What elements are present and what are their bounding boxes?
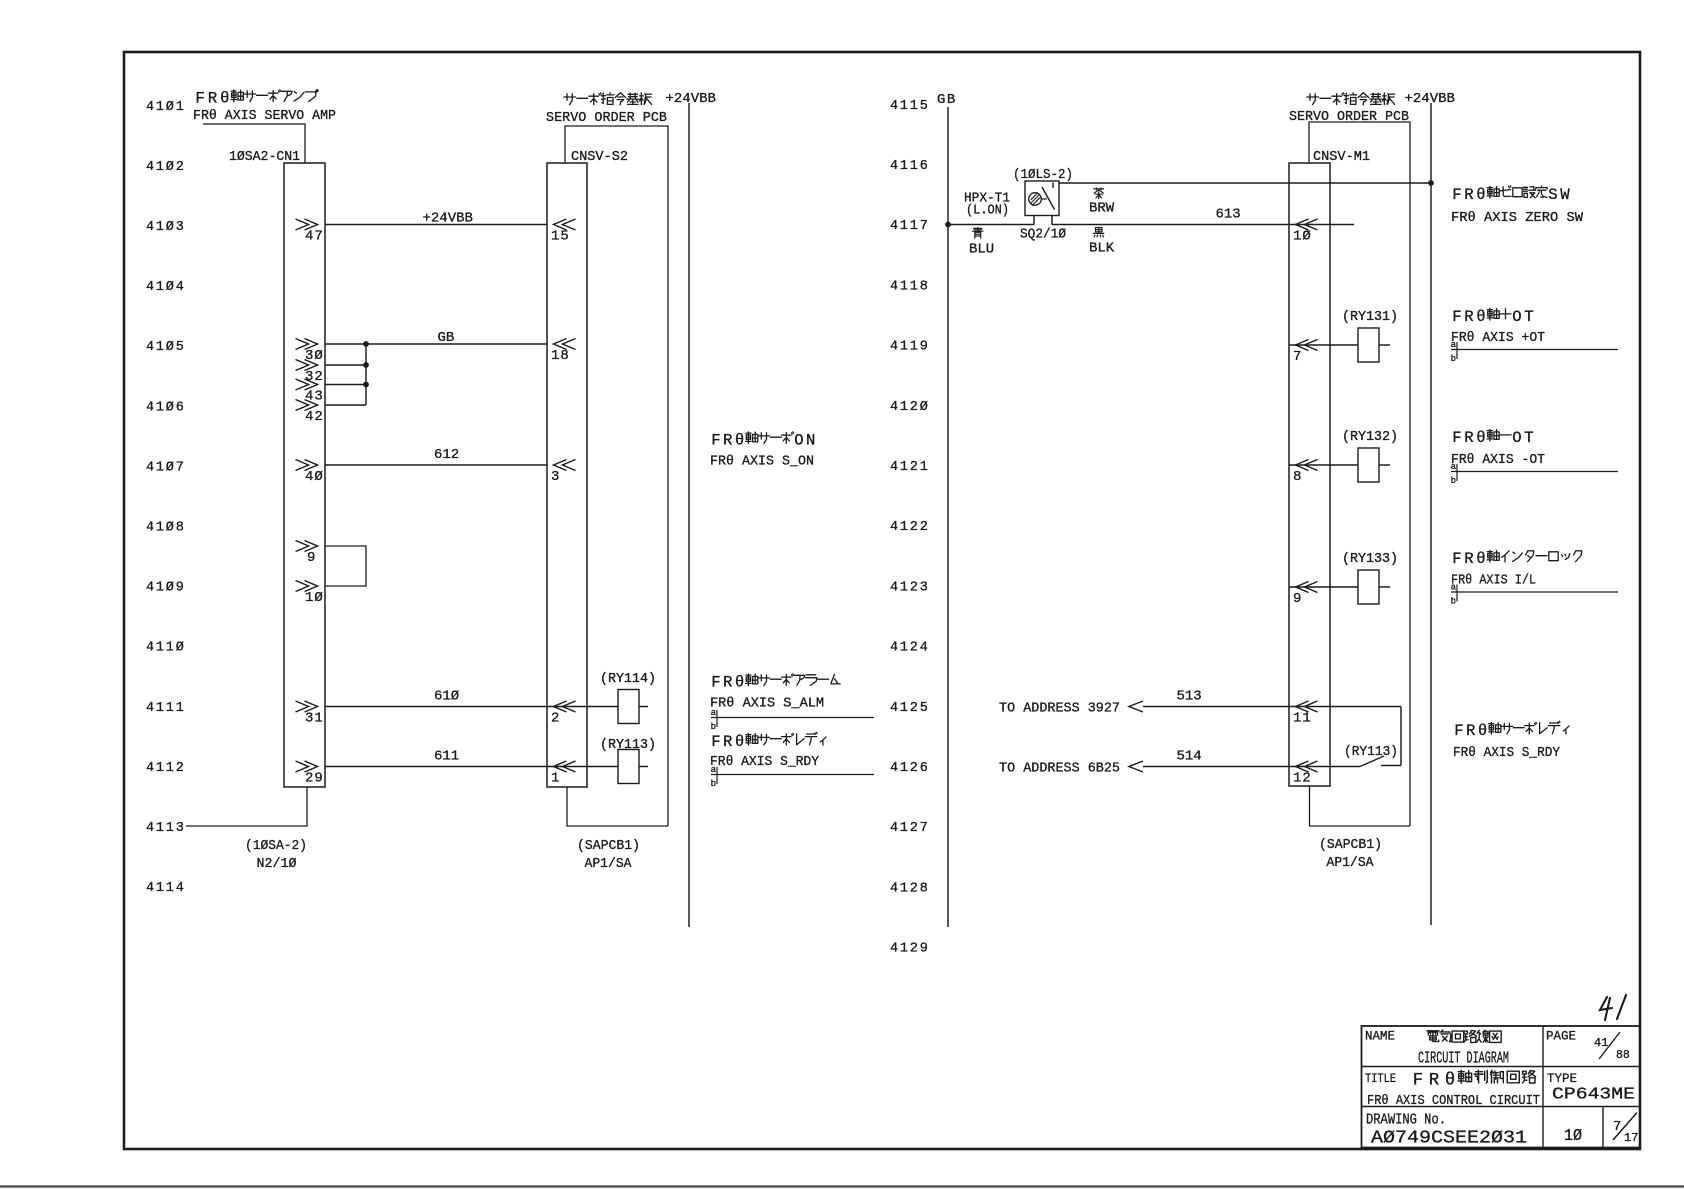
svg-text:b: b [711,722,716,732]
pin 40 of 10SA2-CN1 [296,460,324,486]
svg-text:(RY133): (RY133) [1342,551,1398,567]
title block PAGE [1546,1029,1576,1044]
svg-text:a: a [1451,340,1457,350]
svg-text:FRθ AXIS S_ALM: FRθ AXIS S_ALM [710,696,824,712]
relay coil RY133 label [1342,551,1398,567]
svg-text:3Ø: 3Ø [305,348,324,364]
label (10SA-2) [245,838,307,854]
svg-text:11: 11 [1293,711,1312,727]
title block FR0 AXIS CONTROL CIRCUIT [1367,1093,1540,1109]
line number 4116 [890,159,930,174]
wire CNSV-M1 bottom stub [1310,786,1411,826]
svg-text:(1ØSA-2): (1ØSA-2) [245,838,307,854]
svg-text:SW: SW [1548,186,1572,204]
label FR0 AXIS SERVO AMP [193,108,336,124]
svg-text:18: 18 [551,348,570,364]
pin 18 of CNSV-S2 [551,339,576,365]
svg-text:+24VBB: +24VBB [1405,91,1455,107]
svg-text:FRθ AXIS S_ON: FRθ AXIS S_ON [710,454,814,470]
svg-text:17: 17 [1624,1131,1638,1145]
svg-text:4113: 4113 [146,821,186,836]
svg-text:2: 2 [551,711,560,727]
svg-text:4117: 4117 [890,219,930,234]
svg-text:1Ø: 1Ø [1564,1127,1582,1146]
wire +24VBB (pin47 to pin15) [325,211,547,227]
junction dot GB at 4117 [945,222,951,228]
signal label FRθ axis +OT (Japanese) [1452,308,1536,326]
pin 47 of 10SA2-CN1 [296,219,324,245]
signal label FRθ AXIS S_RDY [710,754,820,770]
wire RY113 feedback vertical [1400,707,1402,766]
svg-text:47: 47 [305,229,324,245]
title block FRθ axis control circuit (Japanese) [1413,1070,1536,1090]
label (L.ON) [966,203,1009,219]
svg-text:FRθ: FRθ [711,673,747,691]
limit switch SQ2/10 body [1025,181,1059,225]
svg-text:FRθ AXIS CONTROL CIRCUIT: FRθ AXIS CONTROL CIRCUIT [1367,1093,1540,1109]
wire 612 (pin40 to pin3) [325,447,547,465]
node a/b line -OT [1451,462,1618,486]
label BLK [1089,241,1115,257]
svg-text:411Ø: 411Ø [146,641,186,656]
title block grid [1362,1026,1641,1148]
pin 42 of 10SA2-CN1 [296,400,324,426]
pin 31 of 10SA2-CN1 [296,701,324,727]
svg-text:FRθ AXIS S_RDY: FRθ AXIS S_RDY [710,754,820,770]
svg-text:FRθ AXIS ZERO SW: FRθ AXIS ZERO SW [1451,210,1584,226]
label SERVO ORDER PCB [546,110,667,126]
svg-text:4Ø: 4Ø [305,469,324,485]
connector name CNSV-S2 [571,149,628,165]
svg-text:NAME: NAME [1365,1029,1395,1044]
label (SAPCB1) right [1319,837,1382,853]
svg-text:15: 15 [551,229,570,245]
svg-text:41Ø9: 41Ø9 [146,581,186,596]
svg-text:FRθ: FRθ [1452,550,1488,568]
svg-text:BLU: BLU [969,242,994,258]
GB bus vertical tie [365,344,367,405]
svg-text:41Ø5: 41Ø5 [146,340,186,355]
svg-text:4114: 4114 [146,881,186,896]
label HPX-T1 [964,191,1010,207]
wire pin9-pin10 jumper loop [325,546,366,586]
label AP1/SA left [585,856,633,872]
svg-text:b: b [1451,354,1456,364]
signal label FRθ axis S_ON (Japanese) [711,431,818,449]
wire 610 (pin31 to pin2 and relay RY114) [325,689,618,707]
svg-text:61Ø: 61Ø [434,689,459,705]
svg-text:41Ø1: 41Ø1 [146,100,186,115]
svg-text:513: 513 [1177,689,1202,705]
svg-text:b: b [711,779,716,789]
label FRθ axis servo amp (Japanese) [195,90,318,108]
svg-text:31: 31 [305,711,324,727]
node a/b line S_ALM [711,708,874,732]
relay coil RY133 [1358,570,1379,604]
pin 10 of 10SA2-CN1 [296,581,324,607]
svg-text:(SAPCB1): (SAPCB1) [577,838,640,854]
svg-text:FRθ: FRθ [195,90,232,108]
svg-text:41Ø4: 41Ø4 [146,280,186,295]
line number 4108 [146,521,186,536]
line number 4111 [146,701,186,716]
title block sheet 10 [1564,1127,1582,1146]
svg-text:a: a [711,708,717,718]
svg-text:4119: 4119 [890,340,930,355]
label servo order pcb right (Japanese) [1307,93,1395,105]
signal label FRθ axis S_ALM (Japanese) [711,673,840,691]
svg-text:FRθ: FRθ [711,733,747,751]
svg-text:42: 42 [305,409,324,425]
svg-text:4128: 4128 [890,881,930,896]
svg-text:29: 29 [305,771,324,787]
line number 4123 [890,580,930,595]
svg-text:FRθ AXIS S_RDY: FRθ AXIS S_RDY [1453,745,1561,761]
signal label FRθ axis S_RDY right (Japanese) [1454,721,1569,740]
svg-text:(RY113): (RY113) [600,737,656,753]
svg-text:FRθ AXIS I/L: FRθ AXIS I/L [1451,573,1536,589]
connector name 10SA2-CN1 [229,149,300,165]
line number 4114 [146,881,186,896]
wire limit switch to +24VBB rail [1059,182,1431,184]
signal label FRθ axis interlock (Japanese) [1452,550,1581,568]
svg-text:AP1/SA: AP1/SA [585,856,633,872]
signal label FRθ axis zero SW (Japanese) [1452,186,1572,204]
pin 32 of 10SA2-CN1 [296,360,324,386]
svg-text:(RY132): (RY132) [1342,429,1398,445]
svg-text:4121: 4121 [890,460,930,475]
wire 513 to address 3927 [999,689,1401,717]
junction dot +24VBB [1428,180,1434,186]
svg-text:FRθ AXIS SERVO AMP: FRθ AXIS SERVO AMP [193,108,336,124]
label +24VBB top right-pcb [1405,91,1455,107]
label +24VBB top left-pcb [666,91,716,107]
connector 10SA2-CN1 body [284,163,325,787]
svg-text:BLK: BLK [1089,241,1115,257]
svg-text:GB: GB [937,92,957,108]
signal label FRθ axis S_RDY (Japanese) [711,732,826,751]
line number 4119 [890,340,930,355]
wire GB to limit switch [948,224,1034,226]
title block TYPE [1547,1071,1577,1086]
label servo order pcb (Japanese) [564,93,652,105]
svg-text:CP643ME: CP643ME [1552,1086,1635,1105]
relay contact RY113 (NO contact) [1360,756,1401,767]
title block circuit diagram (Japanese) [1427,1030,1501,1042]
servo order pcb outline right [1309,122,1410,826]
label SERVO ORDER PCB right [1289,109,1409,125]
svg-text:FRθ: FRθ [1452,429,1488,447]
svg-text:4116: 4116 [890,159,930,174]
relay coil RY131 [1358,328,1379,362]
svg-text:4112: 4112 [146,761,186,776]
label BLU [969,242,994,258]
line number 4109 [146,581,186,596]
paper bottom scan edge [0,1185,1684,1187]
label BRW [1089,201,1115,217]
limit switch 10LS-2 label [1013,167,1073,183]
pin 12 of CNSV-M1 [1293,761,1318,787]
svg-text:FRθ: FRθ [711,431,747,449]
svg-text:TYPE: TYPE [1547,1071,1577,1086]
svg-text:FRθ AXIS -OT: FRθ AXIS -OT [1451,452,1545,468]
svg-text:TO ADDRESS 3927: TO ADDRESS 3927 [999,701,1120,717]
svg-text:4118: 4118 [890,279,930,294]
line number 4103 [146,220,186,235]
line number 4118 [890,279,930,294]
junction dot pin32 [363,362,369,368]
wire pin to relay RY132 [1289,464,1390,466]
line number 4106 [146,400,186,415]
svg-text:SQ2/1Ø: SQ2/1Ø [1020,227,1066,243]
line number 4124 [890,641,930,656]
svg-text:9: 9 [1293,591,1302,607]
line number 4110 [146,641,186,656]
pin 3 of CNSV-S2 [551,460,576,486]
svg-text:43: 43 [305,389,324,405]
label black (Japanese) [1094,228,1104,237]
node a/b line +OT [1451,340,1618,364]
svg-text:+24VBB: +24VBB [666,91,716,107]
junction dot GB pin30 [363,341,369,347]
signal label FRθ AXIS S_ON [710,454,814,470]
line number 4101 [146,100,186,115]
line number 4120 [890,400,930,415]
pin 11 of CNSV-M1 [1293,701,1318,727]
pin 7 of CNSV-M1 [1293,340,1318,366]
wire pin to relay RY133 [1289,586,1390,588]
svg-text:SERVO ORDER PCB: SERVO ORDER PCB [546,110,667,126]
signal label FRθ AXIS +OT [1451,330,1545,346]
pin 1 of CNSV-S2 [551,761,576,787]
svg-text:a: a [711,765,717,775]
wire pin42 stub [325,404,366,406]
signal label FRθ axis -OT (Japanese) [1452,429,1536,447]
svg-text:FRθ: FRθ [1454,722,1490,740]
svg-text:BRW: BRW [1089,201,1115,217]
svg-text:1: 1 [551,771,560,787]
svg-text:+24VBB: +24VBB [423,211,473,227]
wire 514 to address 6B25 [999,749,1360,777]
svg-text:514: 514 [1177,749,1202,765]
pin 29 of 10SA2-CN1 [296,761,324,787]
title block CP643ME [1552,1086,1635,1105]
relay coil RY114 label [600,671,656,687]
title block sheet 7/17 [1613,1113,1638,1146]
svg-text:OT: OT [1512,429,1536,447]
svg-text:4126: 4126 [890,761,930,776]
svg-text:41Ø2: 41Ø2 [146,160,186,175]
svg-text:3: 3 [551,469,560,485]
title block DRAWING No. [1366,1113,1446,1129]
pin 9 of 10SA2-CN1 [296,541,318,567]
wire 611 (pin29 to pin1 and relay RY113) [325,749,618,767]
svg-text:4111: 4111 [146,701,186,716]
svg-text:4127: 4127 [890,821,930,836]
svg-text:612: 612 [434,447,459,463]
node a/b line S_RDY [711,765,874,789]
wire 613 (switch to pin10) [1052,207,1354,225]
wire pin43 stub [325,384,366,386]
svg-text:AP1/SA: AP1/SA [1327,855,1375,871]
signal label FRθ AXIS -OT [1451,452,1545,468]
svg-text:41Ø8: 41Ø8 [146,521,186,536]
wire GB (pin30 to pin18) [325,330,547,346]
servo order pcb outline [565,126,668,826]
svg-text:4129: 4129 [890,942,930,957]
svg-text:DRAWING No.: DRAWING No. [1366,1113,1446,1129]
svg-text:8: 8 [1293,469,1302,485]
svg-text:PAGE: PAGE [1546,1029,1576,1044]
svg-text:88: 88 [1616,1049,1630,1062]
svg-text:41Ø3: 41Ø3 [146,220,186,235]
svg-text:FRθ: FRθ [1452,186,1488,204]
svg-text:41Ø7: 41Ø7 [146,460,186,475]
pin 15 of CNSV-S2 [551,219,576,245]
relay coil RY113 [618,750,648,784]
connector CNSV-M1 body [1289,163,1330,786]
title block TITLE [1365,1071,1396,1086]
connector name CNSV-M1 [1313,149,1370,165]
svg-text:611: 611 [434,749,459,765]
line number 4129 [890,942,930,957]
line number 4115 [890,99,930,114]
pin 43 of 10SA2-CN1 [296,379,324,405]
svg-text:4123: 4123 [890,580,930,595]
relay contact RY113 label [1344,744,1398,760]
line number 4128 [890,881,930,896]
label N2/10 [257,856,297,872]
relay coil RY132 label [1342,429,1398,445]
svg-text:FRθ AXIS +OT: FRθ AXIS +OT [1451,330,1545,346]
svg-text:CIRCUIT DIAGRAM: CIRCUIT DIAGRAM [1418,1049,1509,1068]
svg-text:412Ø: 412Ø [890,400,930,415]
title block NAME [1365,1029,1395,1044]
svg-text:4115: 4115 [890,99,930,114]
line number 4121 [890,460,930,475]
svg-text:41Ø6: 41Ø6 [146,400,186,415]
svg-text:41: 41 [1594,1036,1608,1050]
svg-text:1Ø: 1Ø [1293,229,1312,245]
svg-text:12: 12 [1293,771,1312,787]
label blue (Japanese) [973,228,984,239]
svg-text:a: a [1451,583,1457,593]
line number 4112 [146,761,186,776]
line number 4104 [146,280,186,295]
pin 30 of 10SA2-CN1 [296,339,324,365]
relay coil RY131 label [1342,309,1398,325]
label brown (Japanese) [1094,188,1104,199]
svg-text:(RY113): (RY113) [1344,744,1398,760]
line number 4117 [890,219,930,234]
pin 2 of CNSV-S2 [551,701,576,727]
wire pin to relay RY131 [1289,344,1390,346]
line number 4122 [890,520,930,535]
svg-text:N2/1Ø: N2/1Ø [257,856,297,872]
svg-text:GB: GB [438,330,455,346]
wire 10SA2 bottom stub to 4113 [186,787,307,826]
svg-text:ON: ON [794,431,818,449]
relay coil RY114 [618,690,648,724]
svg-text:(SAPCB1): (SAPCB1) [1319,837,1382,853]
pin 8 of CNSV-M1 [1293,460,1318,486]
svg-text:FRθ: FRθ [1452,308,1488,326]
signal label FRθ AXIS S_RDY right [1453,745,1561,761]
svg-text:7: 7 [1293,349,1302,365]
servo amp label leader line [203,124,305,163]
svg-text:AØ749CSEE2Ø31: AØ749CSEE2Ø31 [1371,1128,1527,1149]
line number 4105 [146,340,186,355]
label GB top right [937,92,957,108]
svg-text:b: b [1451,597,1456,607]
pin 9 of CNSV-M1 [1293,582,1318,608]
line number 4126 [890,761,930,776]
svg-text:a: a [1451,462,1457,472]
svg-text:1Ø: 1Ø [305,590,324,606]
wire pin32 stub [325,364,366,366]
line number 4113 [146,821,186,836]
svg-text:(RY131): (RY131) [1342,309,1398,325]
svg-text:OT: OT [1512,308,1536,326]
svg-text:TITLE: TITLE [1365,1071,1396,1086]
line number 4127 [890,821,930,836]
relay coil RY113 label [600,737,656,753]
GB vertical rail [947,107,949,927]
signal label FRθ AXIS ZERO SW [1451,210,1584,226]
title block page number 41/88 [1594,1032,1630,1062]
connector CNSV-S2 body [547,163,587,787]
signal label FRθ AXIS I/L [1451,573,1536,589]
node a/b line I/L [1451,583,1618,607]
+24VBB vertical rail right [1430,103,1432,925]
pin 10 of CNSV-M1 [1293,219,1318,245]
relay coil RY132 [1358,448,1379,482]
line number 4102 [146,160,186,175]
label (SAPCB1) left [577,838,640,854]
svg-text:FRθ: FRθ [1413,1071,1461,1090]
svg-text:4122: 4122 [890,520,930,535]
svg-text:613: 613 [1216,207,1241,223]
title block drawing number A0749CSEE2031 [1371,1128,1527,1149]
+24VBB vertical rail left [688,103,690,927]
svg-text:(L.ON): (L.ON) [966,203,1009,219]
svg-text:(RY114): (RY114) [600,671,656,687]
svg-text:TO ADDRESS 6B25: TO ADDRESS 6B25 [999,761,1120,777]
line number 4107 [146,460,186,475]
label SQ2/10 [1020,227,1066,243]
title block CIRCUIT DIAGRAM [1418,1049,1509,1068]
signal label FRθ AXIS S_ALM [710,696,824,712]
handwritten page 41 [1600,995,1626,1020]
svg-text:b: b [1451,476,1456,486]
junction dot pin43 [363,382,369,388]
svg-text:9: 9 [307,550,316,566]
wire CNSV-S2 bottom stub [567,787,668,826]
svg-text:4125: 4125 [890,701,930,716]
svg-text:4124: 4124 [890,641,930,656]
label AP1/SA right [1327,855,1375,871]
line number 4125 [890,701,930,716]
